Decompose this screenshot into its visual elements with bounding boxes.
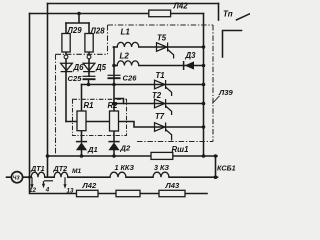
svg-text:С25: С25	[68, 74, 83, 83]
wire: T5 row y47	[114, 46, 204, 48]
label Д5	[95, 63, 107, 72]
svg-text:Т2: Т2	[152, 91, 162, 100]
terminal circle under Л28	[87, 55, 91, 59]
svg-text:4: 4	[45, 187, 50, 194]
resistor Л43	[159, 190, 185, 196]
wire: cathode bus y156	[48, 155, 218, 157]
svg-text:Л29: Л29	[67, 26, 83, 35]
resistor R2	[110, 111, 119, 131]
diode Д5	[83, 63, 95, 71]
svg-text:R2: R2	[108, 101, 119, 110]
wire: R1R2 horizontal line with step to T7 row	[66, 122, 204, 128]
label 13	[67, 187, 74, 194]
label С26	[123, 73, 138, 82]
resistor Л28	[85, 34, 93, 53]
shield boundary dash-dot x107.5	[107, 25, 109, 54]
wire: line B	[30, 13, 204, 15]
label L1	[121, 27, 131, 36]
wire: КСБ1 vertical link	[215, 156, 217, 177]
wire: Л29 column upper	[65, 23, 67, 72]
diode Д1	[76, 142, 87, 151]
svg-text:Тп: Тп	[223, 10, 233, 19]
svg-text:Т1: Т1	[156, 71, 165, 80]
svg-text:Д1: Д1	[87, 145, 98, 154]
wire: R1 feed vertical	[81, 85, 83, 157]
label Л29	[67, 26, 83, 35]
resistor R1	[77, 111, 86, 131]
svg-text:ДТ1: ДТ1	[30, 164, 45, 173]
wire: T2 feed jog	[114, 99, 124, 104]
label Т7	[155, 112, 165, 121]
coil ДТ2	[54, 172, 68, 177]
resistor Л42 (bottom wire)	[77, 190, 99, 196]
ДТ center bar	[44, 180, 53, 182]
label Д2	[120, 144, 131, 153]
svg-text:Д3: Д3	[185, 51, 197, 60]
wire: motor/coil line y177 segments	[7, 176, 218, 178]
svg-text:Д2: Д2	[120, 144, 131, 153]
machine circle ЧЗ	[11, 172, 22, 183]
shield boundary dash-dot top y25	[108, 24, 214, 26]
label 3 КЗ	[154, 163, 169, 172]
coil ККЗ	[110, 172, 126, 177]
thyristor Т2	[155, 99, 172, 115]
resistor Л29	[62, 34, 70, 53]
wire: Д6 column down to R1R2 line	[65, 72, 67, 122]
svg-text:КСБ1: КСБ1	[217, 164, 236, 173]
label Д1	[87, 145, 98, 154]
shield boundary dash-dot y54.3	[56, 53, 108, 55]
wire: left vertical to bottom wire with corner	[30, 14, 208, 194]
shield boundary dash-dot bottom y141.5	[137, 141, 213, 143]
terminal circle under Л29	[64, 55, 68, 59]
svg-text:3 КЗ: 3 КЗ	[154, 163, 169, 172]
label М1	[72, 168, 81, 175]
diode Д2	[108, 142, 119, 151]
svg-text:ЧЗ: ЧЗ	[13, 176, 21, 182]
thyristor Т7	[155, 123, 172, 141]
background paper	[0, 0, 250, 203]
label Л43	[165, 181, 180, 190]
label R1	[84, 101, 94, 110]
svg-text:12: 12	[29, 187, 36, 194]
wire: Л29 feed from line B and top bar	[66, 14, 89, 24]
svg-text:13: 13	[67, 187, 74, 194]
svg-text:L2: L2	[120, 51, 130, 60]
label ДТ1	[30, 164, 45, 173]
wire: T1 row y84.5	[82, 84, 204, 86]
svg-text:Л42: Л42	[173, 1, 189, 10]
diode Д6	[61, 63, 73, 71]
svg-text:Rш1: Rш1	[172, 145, 189, 154]
label L2	[120, 51, 130, 60]
label 12	[29, 187, 36, 194]
diode Д3	[184, 61, 194, 70]
arrow 12	[30, 177, 33, 189]
arrow 13	[63, 177, 66, 189]
shield boundary dash-dot right x213 (Л39)	[212, 25, 214, 142]
wire: Л28 column upper	[88, 23, 90, 76]
wire: right corner bracket	[223, 31, 242, 58]
label С25	[68, 74, 83, 83]
Л39 leader line	[212, 96, 219, 104]
wire: top line A	[48, 3, 219, 5]
label Л28	[90, 26, 106, 35]
svg-text:М1: М1	[72, 168, 81, 175]
svg-text:Л28: Л28	[90, 26, 106, 35]
label Т2	[152, 91, 162, 100]
label КСБ1	[217, 164, 236, 173]
wire: Tп switch drop	[218, 4, 220, 21]
shield box around R1 R2	[73, 99, 127, 135]
wire: C25 bottom stub	[88, 79, 90, 84]
svg-text:Л42: Л42	[82, 181, 97, 190]
svg-text:Л39: Л39	[218, 88, 233, 97]
label Д6	[73, 63, 85, 72]
resistor Rш1 (on bus)	[151, 152, 173, 159]
svg-text:Т7: Т7	[155, 112, 165, 121]
label Л39	[218, 88, 233, 97]
label Тп	[223, 10, 233, 19]
label Л42 top	[173, 1, 189, 10]
label Л42 bottom	[82, 181, 97, 190]
svg-text:ДТ2: ДТ2	[53, 164, 68, 173]
svg-text:С26: С26	[123, 73, 138, 82]
label Rш1	[172, 145, 189, 154]
coil КЗ	[153, 172, 169, 177]
inductor L2	[117, 61, 139, 66]
svg-text:R1: R1	[84, 101, 94, 110]
label Т5	[157, 34, 167, 43]
label 4	[45, 187, 50, 194]
wire: right thyristor bus x203.5	[203, 14, 205, 157]
svg-text:L1: L1	[121, 27, 131, 36]
label Д3	[185, 51, 197, 60]
thyristor Т5	[157, 43, 174, 59]
inductor L1	[117, 42, 139, 47]
label Т1	[156, 71, 165, 80]
wire: second left vertical x48	[47, 4, 49, 178]
label ДТ2	[53, 164, 68, 173]
shield boundary dash-dot x55.5	[55, 54, 57, 156]
thyristor Т1	[155, 80, 172, 96]
wire: main middle vertical x114	[113, 47, 116, 156]
svg-text:Л43: Л43	[165, 181, 180, 190]
wire: T2 row y103.5	[114, 103, 204, 105]
label R2	[108, 101, 119, 110]
resistor (bottom middle)	[116, 190, 140, 196]
wire: Д3 row y65.5	[114, 65, 204, 67]
capacitor C26	[108, 75, 121, 78]
switch Тп blade	[237, 14, 250, 20]
arrow 4	[42, 181, 45, 188]
resistor Л42 (top, on line B)	[149, 10, 171, 17]
coil ДТ1	[31, 172, 45, 177]
capacitor C25	[83, 76, 96, 79]
svg-text:1 ККЗ: 1 ККЗ	[115, 163, 135, 172]
svg-text:Д5: Д5	[95, 63, 107, 72]
svg-text:Т5: Т5	[157, 34, 167, 43]
svg-text:Д6: Д6	[73, 63, 85, 72]
label 1 ККЗ	[115, 163, 135, 172]
